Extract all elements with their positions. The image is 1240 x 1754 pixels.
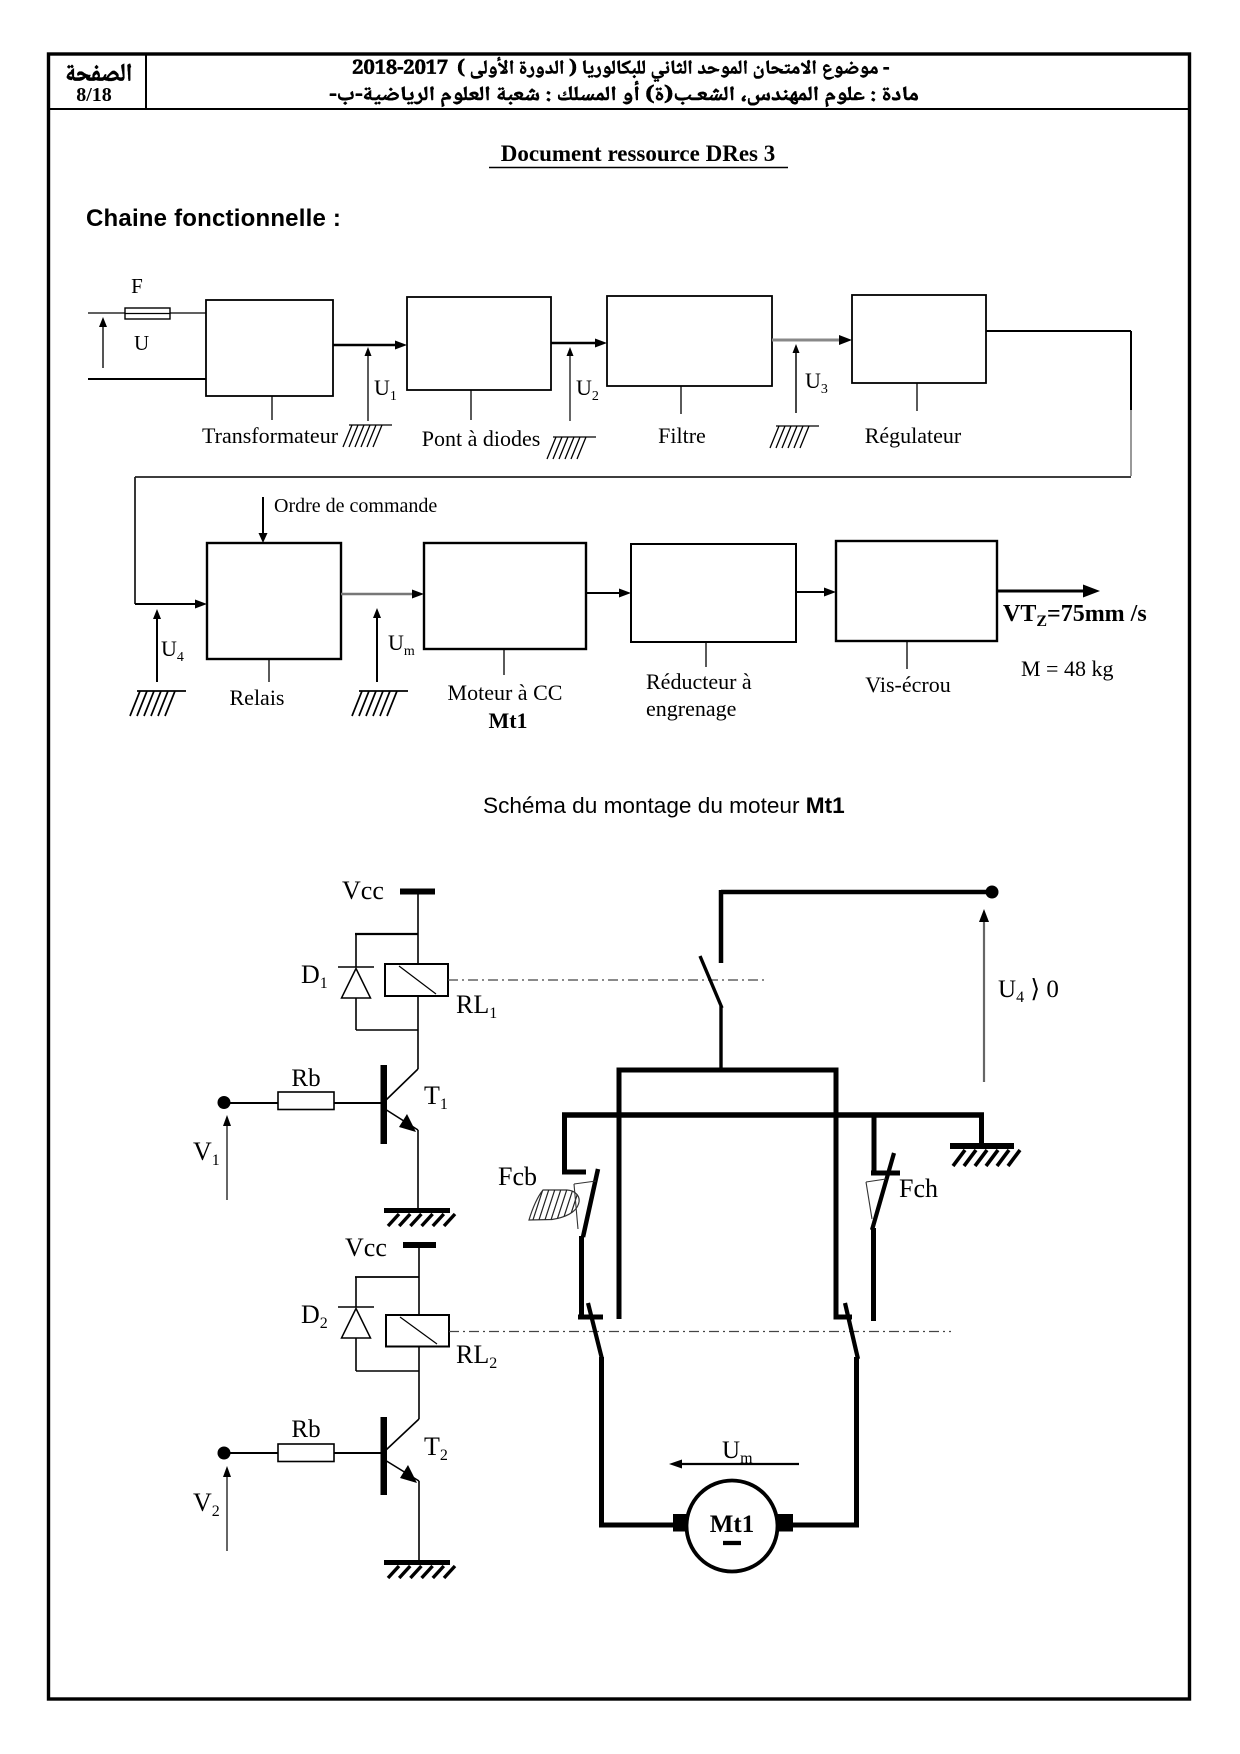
svg-text:Chaine fonctionnelle :: Chaine fonctionnelle : <box>86 205 341 232</box>
svg-text:Vis-écrou: Vis-écrou <box>865 672 950 697</box>
wire output arrow VTz <box>997 590 1083 593</box>
svg-text:Rb: Rb <box>291 1416 320 1443</box>
ground under T2 <box>384 1560 450 1565</box>
svg-text:U3: U3 <box>805 368 828 397</box>
wire arrow into Relais <box>135 603 198 605</box>
svg-text:Mt1: Mt1 <box>710 1511 754 1538</box>
hatch under U3 <box>776 425 819 427</box>
block Pont à diodes box <box>407 297 551 390</box>
contact blade Fch <box>872 1153 894 1230</box>
flag link Fch triangle <box>866 1182 872 1219</box>
dash-dot link RL2 <box>449 1331 951 1333</box>
Vcc supply 1 bar <box>400 889 435 895</box>
wire Fch lower vertical (open end) <box>871 1228 876 1321</box>
wire feedback left vertical <box>134 477 136 604</box>
svg-text:U2: U2 <box>576 375 599 404</box>
wire Fch branch vertical <box>872 1115 877 1173</box>
block Réducteur box <box>631 544 796 642</box>
wire feedback horizontal <box>135 476 1131 478</box>
transistor T1 base bar <box>381 1065 388 1144</box>
node V2 input <box>218 1447 231 1460</box>
svg-text:M = 48 kg: M = 48 kg <box>1021 656 1113 681</box>
wire base T1 <box>334 1102 381 1104</box>
wire D1 bottom branch <box>356 1029 418 1031</box>
wire: mains top line with fuse <box>88 312 206 314</box>
svg-text:Moteur à CC: Moteur à CC <box>448 680 563 705</box>
fuse F symbol <box>125 308 170 319</box>
svg-text:8/18: 8/18 <box>76 84 112 106</box>
wire coil2 to T2 collector <box>418 1347 420 1420</box>
svg-text:T2: T2 <box>424 1432 448 1464</box>
header arabic line 2 (subject line) <box>330 81 918 107</box>
hatch after Transformateur <box>349 424 392 426</box>
svg-text:Mt1: Mt1 <box>488 708 527 733</box>
wire arrow Moteur to Réducteur <box>586 592 622 594</box>
svg-text:D1: D1 <box>301 960 328 992</box>
resistor Rb2 <box>278 1444 334 1462</box>
svg-text:U1: U1 <box>374 375 397 404</box>
svg-text:U: U <box>134 331 149 355</box>
block Moteur à CC box <box>424 543 586 649</box>
hatch under U4 <box>137 690 186 692</box>
svg-text:Transformateur: Transformateur <box>202 423 339 448</box>
wire right to motor <box>854 1357 859 1528</box>
wire V2 node to Rb <box>228 1452 278 1454</box>
svg-text:Ordre de commande: Ordre de commande <box>274 495 437 517</box>
wire arrow Transformateur to Pont <box>333 344 398 346</box>
transistor T2 emitter with arrow <box>387 1461 420 1481</box>
wire Fcb lower vertical <box>579 1236 584 1317</box>
svg-text:Document ressource DRes 3: Document ressource DRes 3 <box>501 141 775 166</box>
wire D1 top branch <box>355 933 418 935</box>
wire lower bus <box>562 1112 984 1118</box>
dash-dot link RL1 <box>448 979 766 981</box>
wire feedback vertical right <box>1130 331 1132 410</box>
motor Mt1 circle <box>687 1481 778 1572</box>
block Filtre box <box>607 296 772 386</box>
svg-text:RL1: RL1 <box>456 990 497 1022</box>
ground right <box>950 1143 1014 1149</box>
arrow U4 <box>156 618 158 682</box>
wire arrow Filtre to Régulateur <box>772 339 840 342</box>
svg-text:engrenage: engrenage <box>646 696 736 721</box>
ground under T1 <box>384 1208 450 1213</box>
relay coil RL2 <box>386 1315 449 1347</box>
Vcc supply 2 bar <box>403 1242 436 1248</box>
wire right outer vertical <box>834 1070 839 1317</box>
svg-text:Pont à diodes: Pont à diodes <box>422 426 541 451</box>
header arabic line 1 (exam title) <box>353 57 889 82</box>
block Relais box <box>207 543 341 659</box>
wire D2 top branch <box>355 1276 419 1278</box>
svg-text:U4: U4 <box>161 636 184 665</box>
arrow U1 <box>367 355 369 421</box>
wire left inner vertical (open end) <box>617 1070 622 1319</box>
motor Mt1 terminals <box>673 1514 690 1532</box>
arrow V1 <box>226 1124 228 1200</box>
leader Vis-écrou <box>906 641 908 669</box>
header separator line <box>47 108 1190 110</box>
arrow U3 <box>795 352 797 413</box>
wire RL1 contact upper <box>719 890 724 963</box>
arrow V2 <box>226 1475 228 1551</box>
contact blade RL1 <box>700 956 722 1008</box>
wire base T2 <box>334 1452 381 1454</box>
block Vis-écrou box <box>836 541 997 641</box>
arrow Ordre de commande <box>262 497 264 534</box>
svg-text:Vcc: Vcc <box>342 876 384 905</box>
svg-text:VTZ=75mm /s: VTZ=75mm /s <box>1003 601 1147 630</box>
wire Régulateur output right <box>986 330 1131 332</box>
relay coil RL1 <box>385 964 448 996</box>
diode D1 <box>338 966 374 968</box>
svg-text:Régulateur: Régulateur <box>865 423 962 448</box>
wire arrow Pont to Filtre <box>551 342 598 344</box>
block Transformateur box <box>206 300 333 396</box>
motor supply arrow Um <box>681 1463 799 1465</box>
svg-text:V1: V1 <box>193 1137 220 1169</box>
contact blade Fcb <box>583 1169 598 1237</box>
svg-text:Rb: Rb <box>291 1065 320 1092</box>
leader Régulateur <box>916 383 918 411</box>
svg-text:U4 ⟩ 0: U4 ⟩ 0 <box>998 976 1059 1006</box>
hatch under Um <box>359 690 408 692</box>
block Régulateur box <box>852 295 986 383</box>
svg-text:Schéma du montage du moteur Mt: Schéma du montage du moteur Mt1 <box>483 793 845 818</box>
transistor T1 emitter with arrow <box>387 1110 419 1130</box>
wire bus to ground <box>979 1115 984 1144</box>
title underline <box>489 167 788 169</box>
contact blade RL2 left <box>588 1303 602 1359</box>
wire top U4 line <box>721 890 990 895</box>
wire RL1 contact lower <box>719 1006 722 1070</box>
leader Réducteur <box>705 642 707 667</box>
wire D2 bottom branch <box>356 1370 419 1372</box>
wire Vcc1 to coil <box>417 894 419 964</box>
wire V1 node to Rb <box>228 1102 278 1104</box>
leader Transformateur <box>271 396 273 420</box>
diode D2 <box>338 1306 374 1308</box>
leader Relais <box>268 659 270 682</box>
svg-text:RL2: RL2 <box>456 1340 497 1372</box>
wire Vcc2 to coil <box>418 1247 420 1315</box>
arrow Um <box>376 617 378 682</box>
svg-text:F: F <box>131 274 143 298</box>
transistor T2 base bar <box>381 1417 388 1495</box>
svg-text:V2: V2 <box>193 1488 220 1520</box>
svg-text:Um: Um <box>722 1437 753 1467</box>
wire top bus <box>617 1068 839 1073</box>
leader Pont à diodes <box>470 390 472 420</box>
arrow U4 (gray) <box>983 922 985 1082</box>
svg-text:D2: D2 <box>301 1300 328 1332</box>
leader Moteur <box>503 649 505 675</box>
svg-text:T1: T1 <box>424 1081 448 1113</box>
svg-text:Fcb: Fcb <box>498 1162 537 1191</box>
wire arrow Réducteur to Vis-écrou <box>796 591 827 593</box>
flag link Fcb triangle <box>574 1184 578 1229</box>
hatch after Pont à diodes <box>553 436 596 438</box>
resistor Rb1 <box>278 1092 334 1110</box>
wire arrow Relais to Moteur <box>341 593 414 595</box>
leader Filtre <box>680 386 682 414</box>
wire left outer vertical to Fcb <box>562 1115 567 1172</box>
svg-text:Fch: Fch <box>899 1174 938 1203</box>
arrow U2 <box>569 355 571 421</box>
wire: mains bottom line <box>88 378 206 380</box>
svg-text:Um: Um <box>388 630 415 659</box>
wire coil1 to T1 collector <box>417 996 419 1069</box>
arrow U (mains voltage) <box>102 325 104 368</box>
svg-text:Relais: Relais <box>230 685 285 710</box>
svg-text:Vcc: Vcc <box>345 1233 387 1262</box>
header page-cell divider <box>145 55 147 109</box>
node U4 top <box>986 886 999 899</box>
header arabic word الصفحة (page) <box>67 64 131 81</box>
motor minus mark <box>723 1541 741 1545</box>
contact blade RL2 right <box>845 1303 858 1359</box>
node V1 input <box>218 1096 231 1109</box>
svg-text:Réducteur à: Réducteur à <box>646 669 752 694</box>
svg-text:Filtre: Filtre <box>658 423 706 448</box>
wire left to motor <box>599 1357 604 1528</box>
